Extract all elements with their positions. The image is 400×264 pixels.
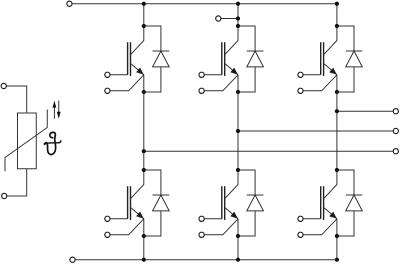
node: rail junction leg1: [142, 2, 146, 6]
diode D6: [337, 170, 362, 236]
wire: auxiliary terminal to leg 2: [221, 18, 238, 20]
wire: T6 emitter to DC- rail: [336, 236, 338, 260]
wire: DC+ rail: [72, 3, 337, 5]
node: T5 collector branch: [236, 168, 240, 172]
diode D3: [337, 26, 362, 92]
node: rail junction leg2: [236, 2, 240, 6]
node: T3 emitter / D3 anode: [335, 90, 339, 94]
node: auxiliary tap: [236, 16, 240, 20]
node: rail corner leg3: [335, 2, 339, 6]
wire: rail to T3 collector: [336, 4, 338, 26]
diode D2: [238, 26, 263, 92]
IGBT T3: [298, 26, 337, 93]
terminal: thermistor top: [1, 83, 6, 88]
node: T6 collector branch: [335, 168, 339, 172]
wire: T4 emitter to DC- rail: [143, 236, 145, 260]
wire: rail to T2 collector: [237, 4, 239, 26]
wire: T5 emitter to DC- rail: [237, 236, 239, 260]
terminal: phase U: [393, 149, 398, 154]
wire: leg3 midpoint: [336, 92, 338, 170]
node: T2 collector branch: [236, 24, 240, 28]
wire: DC- rail: [75, 259, 337, 261]
thermistor variability stroke: [5, 110, 47, 172]
terminal: phase V: [393, 128, 398, 133]
node: T1 collector branch: [142, 24, 146, 28]
node: T5 emitter / D5 anode: [236, 234, 240, 238]
thermistor R(T) body: [18, 113, 37, 169]
IGBT T4: [105, 170, 144, 237]
label: theta: [44, 132, 61, 154]
node: phase V tap: [236, 129, 240, 133]
wire: phase V output: [238, 130, 393, 132]
node: T2 emitter / D2 anode: [236, 90, 240, 94]
IGBT T1: [105, 26, 144, 93]
terminal: DC+: [67, 1, 72, 6]
node: T1 emitter / D1 anode: [142, 90, 146, 94]
terminal: DC-: [70, 257, 75, 262]
wire: leg2 midpoint: [237, 92, 239, 170]
node: phase W tap: [335, 109, 339, 113]
node: T4 collector branch: [142, 168, 146, 172]
arrow up: [53, 105, 55, 119]
IGBT T2: [199, 26, 238, 93]
node: DC- corner leg3: [335, 258, 339, 262]
terminal: thermistor bottom: [2, 193, 7, 198]
diode D1: [144, 26, 169, 92]
wire: rail to T1 collector: [143, 4, 145, 26]
arrow down: [58, 101, 60, 115]
node: DC- junction leg1: [142, 258, 146, 262]
node: DC- junction leg2: [236, 258, 240, 262]
diode D4: [144, 170, 169, 236]
wire: thermistor bottom lead: [7, 169, 27, 196]
node: T3 collector branch: [335, 24, 339, 28]
node: phase U tap: [142, 149, 146, 153]
terminal: phase W: [393, 109, 398, 114]
wire: phase W output: [337, 110, 393, 112]
IGBT T6: [298, 170, 337, 237]
diode D5: [238, 170, 263, 236]
wire: phase U output: [144, 150, 393, 152]
node: T4 emitter / D4 anode: [142, 234, 146, 238]
terminal: DC+ auxiliary: [216, 16, 221, 21]
IGBT T5: [199, 170, 238, 237]
wire: leg1 midpoint: [143, 92, 145, 170]
wire: thermistor top lead: [7, 86, 27, 113]
node: T6 emitter / D6 anode: [335, 234, 339, 238]
